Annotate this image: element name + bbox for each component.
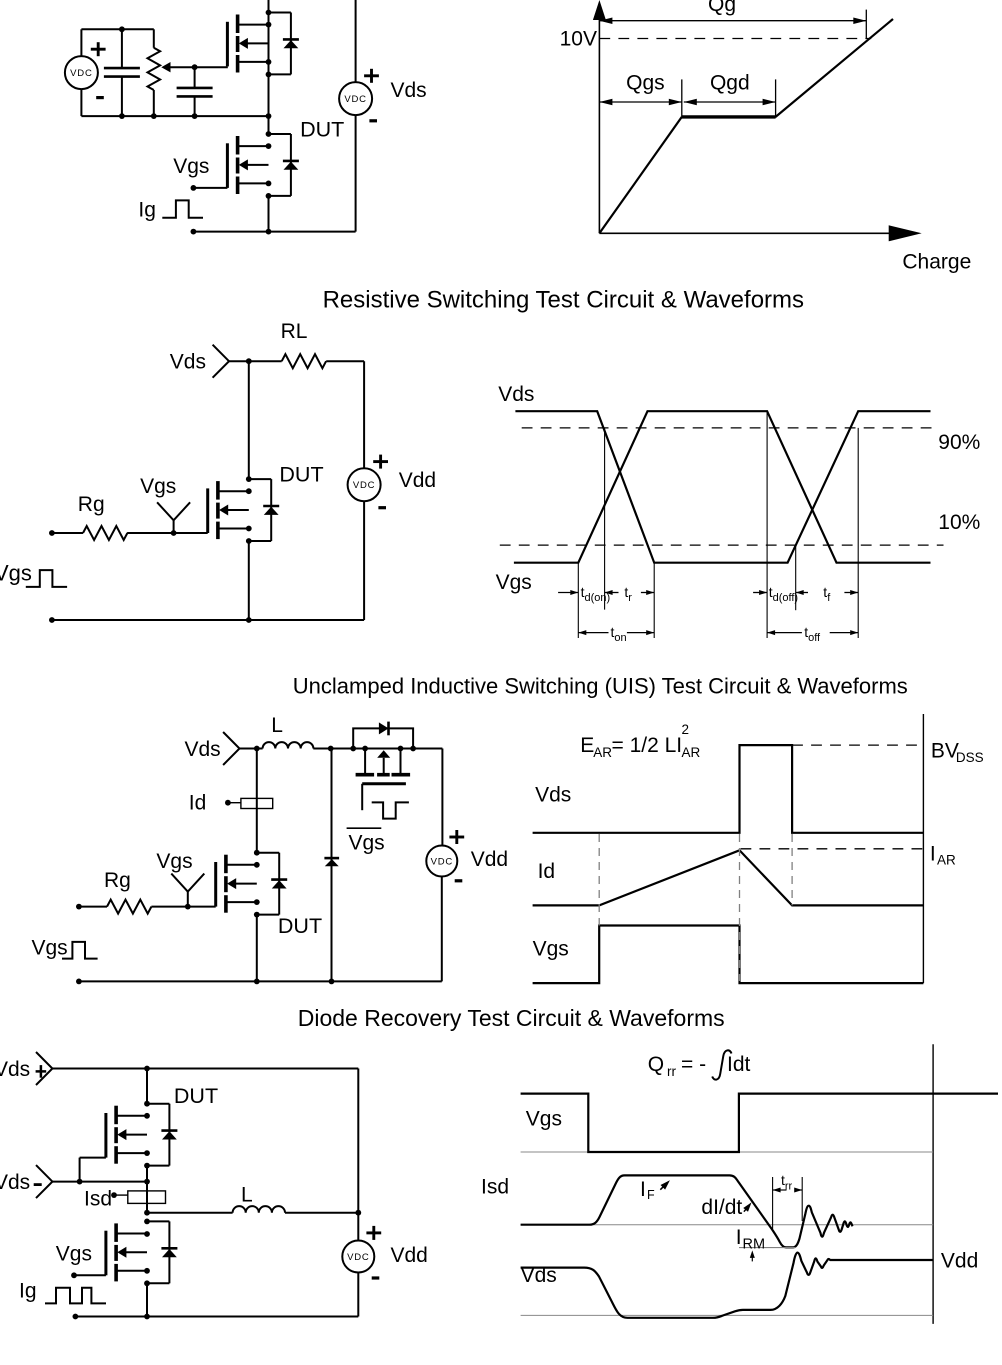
tick F (Vds 90% rise)	[857, 428, 859, 638]
label + (VDC plus)	[91, 48, 106, 51]
junction DUT source tap	[254, 899, 260, 905]
svg-text:Vdd: Vdd	[391, 1244, 428, 1267]
svg-text:Vdd: Vdd	[941, 1250, 978, 1273]
clamp MOSFET Q2 (sideways)	[364, 749, 366, 774]
svg-text:RL: RL	[281, 320, 308, 343]
svg-text:Rg: Rg	[104, 869, 131, 892]
junction L / clamp diode branch	[328, 746, 334, 752]
junction DUT drain tap	[254, 862, 260, 868]
svg-text:Vds: Vds	[0, 1058, 30, 1081]
Ig gate pulse symbol	[162, 200, 203, 217]
junction lower source tap	[144, 1268, 150, 1274]
junction bottom / lower rail	[144, 1314, 150, 1320]
ton right arrow	[627, 632, 654, 634]
rail: DUT source to bottom	[268, 196, 270, 232]
BVdss dashed level	[792, 744, 921, 746]
90% dashed line	[522, 427, 933, 429]
junction pot bottom	[151, 113, 157, 119]
rail: Vds node down to Id sensor	[256, 749, 258, 853]
junction gate / Vgs probe	[185, 904, 191, 910]
junction DUT drain branch	[144, 1101, 150, 1107]
DUT MOSFET (gate charge)	[269, 133, 291, 135]
tick A (Vgs rise start)	[577, 563, 579, 638]
junction DUT source branch	[254, 912, 260, 918]
trr left tick	[772, 1177, 774, 1231]
bottom wire of left loop	[81, 115, 268, 117]
svg-text:DUT: DUT	[174, 1084, 218, 1108]
Vdd rail upper	[357, 1069, 359, 1241]
Vgs recovery trace	[521, 1094, 998, 1152]
Vgs probe chevron	[171, 874, 204, 892]
wire L to diode node	[313, 748, 353, 750]
junction DUT source tap	[246, 526, 252, 532]
tick E (Vds 10% rise)	[795, 545, 797, 610]
junction top wire / DUT rail	[246, 358, 252, 364]
DUT MOSFET (UIS)	[257, 852, 279, 854]
Qgd tick	[775, 79, 777, 117]
svg-text:Isd: Isd	[481, 1175, 509, 1198]
junction Q1 source branch	[266, 72, 272, 78]
svg-text:Charge: Charge	[902, 251, 971, 274]
inductor L	[263, 742, 314, 748]
wire top to Vdd rail corner	[441, 749, 443, 846]
clamp FET stub 2 junction	[398, 746, 404, 752]
UIS waveform boundary line	[922, 714, 924, 983]
junction gate elbow	[77, 1179, 83, 1185]
tr right arrow	[641, 592, 654, 594]
svg-text:Idt: Idt	[727, 1053, 751, 1076]
DUT rail upper	[248, 361, 250, 479]
wire to inductor	[147, 1212, 233, 1214]
svg-text:2: 2	[682, 722, 690, 737]
junction wiper-C2	[192, 64, 198, 70]
Vdd rail upper	[363, 361, 365, 468]
wire inductor to Vdd rail	[285, 1212, 358, 1214]
junction DUT source tap	[266, 181, 272, 187]
svg-text:AR: AR	[593, 745, 612, 760]
Vds low gray line	[521, 1314, 934, 1316]
dI/dt pointer arrow	[744, 1206, 748, 1211]
junction lower source branch	[144, 1280, 150, 1286]
Vds source rail (top)	[355, 0, 357, 82]
bottom wire left node	[49, 617, 55, 623]
label - (probe)	[34, 1183, 42, 1186]
Qg right tick	[865, 10, 867, 39]
svg-text:Vds: Vds	[0, 1171, 30, 1194]
junction DUT source branch	[266, 193, 272, 199]
tick D (Vgs fall start)	[766, 411, 768, 638]
tick C (Vds low)	[653, 563, 655, 638]
junction lower drain branch	[144, 1219, 150, 1225]
svg-text:Vgs: Vgs	[349, 831, 385, 854]
dashed marker t1	[739, 834, 741, 981]
label - (Vdd minus)	[455, 879, 463, 882]
label - (VDC minus)	[96, 96, 104, 99]
potentiometer R1 top lead	[153, 29, 155, 48]
junction DUT drain tap	[144, 1113, 150, 1119]
svg-text:Qg: Qg	[708, 0, 736, 16]
Vgs probe chevron	[157, 502, 190, 520]
label - (Vds minus)	[369, 119, 377, 122]
10V dashed level	[599, 38, 871, 40]
top wire across clamp FET	[353, 748, 442, 750]
svg-text:Vgs: Vgs	[0, 561, 32, 586]
svg-text:Id: Id	[189, 792, 207, 815]
Qgs tick	[681, 79, 683, 117]
Vds- probe chevron	[36, 1165, 52, 1198]
Qg dimension arrow	[599, 20, 866, 22]
wire: VDC- down to bottom wire	[80, 89, 82, 116]
Vdd rail lower	[441, 877, 443, 982]
Vdd rail lower	[363, 501, 365, 620]
DC source VDC (gate supply)	[65, 56, 98, 89]
svg-text:Ig: Ig	[19, 1280, 37, 1303]
svg-text:Vgs: Vgs	[533, 938, 569, 961]
junction DUT drain branch	[254, 850, 260, 856]
DC source Vdd (VDC)	[342, 1241, 374, 1273]
dashed marker t2	[791, 834, 793, 905]
junction bottom / DUT rail	[254, 979, 260, 985]
junction top / DUT rail	[144, 1066, 150, 1072]
svg-text:DUT: DUT	[300, 117, 344, 141]
junction C1 bottom	[119, 113, 125, 119]
svg-text:E: E	[580, 734, 594, 757]
wire probe to rail	[52, 1181, 147, 1183]
trr right tick	[801, 1177, 803, 1221]
trr span arrow	[773, 1189, 787, 1191]
middle diode symbol	[325, 859, 339, 866]
Vds UIS trace	[533, 745, 924, 833]
Vgs drive pulse symbol	[62, 942, 98, 959]
Vds source rail (bottom)	[355, 115, 357, 232]
middle clamp diode branch	[331, 749, 333, 982]
junction DUT source tap	[144, 1150, 150, 1156]
svg-text:Vds: Vds	[498, 383, 534, 406]
toff right arrow	[830, 632, 859, 634]
junction C2 bottom	[192, 113, 198, 119]
resistor Rg	[107, 900, 151, 914]
label + (probe)	[36, 1070, 47, 1073]
junction gate / Vgs probe	[171, 530, 177, 536]
inductor L	[233, 1206, 285, 1213]
bottom wire left node	[76, 979, 82, 985]
svg-text:AR: AR	[937, 853, 956, 868]
svg-text:RM: RM	[743, 1237, 766, 1253]
svg-text:Vgs: Vgs	[156, 850, 192, 873]
svg-text:Vdd: Vdd	[471, 848, 508, 871]
svg-text:Vds: Vds	[170, 351, 206, 374]
rail to Isd sensor	[146, 1166, 148, 1213]
capacitor C1	[104, 67, 140, 70]
Rg input node	[49, 530, 55, 536]
svg-text:= -: = -	[681, 1053, 706, 1076]
DUT rail upper	[146, 1069, 148, 1104]
svg-text:Ig: Ig	[138, 199, 156, 222]
label - (Vdd minus)	[372, 1276, 380, 1279]
resistor RL	[282, 354, 326, 368]
DUT MOSFET (diode recovery)	[147, 1103, 169, 1105]
svg-text:Vdd: Vdd	[399, 469, 436, 492]
junction Vds node	[254, 746, 260, 752]
svg-text:Vds: Vds	[185, 738, 221, 761]
Vds probe chevron	[213, 345, 229, 378]
td(off) lead arrow	[753, 592, 767, 594]
Isd current sense box	[128, 1191, 166, 1204]
Qgd dimension arrow	[684, 101, 776, 103]
diode recovery boundary line	[932, 1044, 934, 1324]
wire RL to Vdd rail	[326, 360, 364, 362]
Ig double pulse symbol	[45, 1288, 106, 1304]
capacitor C2 top lead	[194, 67, 196, 88]
junction clamp source node	[350, 746, 356, 752]
top wire to RL	[229, 360, 282, 362]
svg-text:10V: 10V	[560, 28, 597, 51]
Vgs low gray line	[521, 1151, 934, 1153]
junction Q1 drain tap	[266, 22, 272, 28]
svg-text:VDC: VDC	[431, 857, 453, 868]
junction lower drain tap	[144, 1231, 150, 1237]
gate node dot	[71, 1272, 77, 1278]
Vdd rail lower	[357, 1273, 359, 1317]
resistor Rg lead-in	[52, 532, 83, 534]
junction Vds- / rail	[144, 1179, 150, 1185]
Vds recovery trace	[521, 1253, 934, 1318]
junction DUT drain branch	[246, 476, 252, 482]
svg-text:10%: 10%	[938, 511, 980, 534]
Id sense node dot	[225, 800, 231, 806]
potentiometer R1 bottom lead	[153, 90, 155, 116]
svg-text:Vgs: Vgs	[140, 475, 176, 498]
clamp FET drain junction	[410, 746, 416, 752]
drain rail (top)	[268, 0, 270, 134]
Vgs UIS trace	[533, 926, 924, 984]
svg-text:I: I	[640, 1178, 646, 1201]
svg-text:DSS: DSS	[956, 750, 984, 765]
td(on) lead arrow	[558, 592, 578, 594]
label + (Vds plus)	[364, 74, 379, 77]
Vgs waveform trace	[514, 411, 931, 563]
clamp FET stub 1 junction	[362, 746, 368, 752]
chart Y axis	[598, 6, 600, 233]
capacitor C1 bottom lead	[121, 77, 123, 117]
label + (Vdd plus)	[373, 460, 388, 463]
tf right arrow	[844, 592, 858, 594]
resistor Rg lead-in	[79, 906, 107, 908]
svg-text:Vgs: Vgs	[496, 571, 532, 594]
Isd sense node dot	[111, 1192, 117, 1198]
junction DUT drain branch	[266, 131, 272, 137]
upper MOSFET Q1	[269, 12, 291, 14]
DC source Vdd (VDC)	[426, 846, 457, 877]
junction L / Vdd rail	[355, 1210, 361, 1216]
junction bottom / DUT rail	[246, 617, 252, 623]
svg-text:I: I	[930, 842, 936, 865]
top wire	[52, 1068, 358, 1070]
junction DUT source branch	[246, 538, 252, 544]
gate node dot	[191, 185, 197, 191]
svg-text:DUT: DUT	[279, 462, 323, 486]
svg-text:BV: BV	[931, 740, 959, 763]
svg-text:VDC: VDC	[344, 94, 366, 105]
svg-text:Vgs: Vgs	[173, 155, 209, 178]
svg-text:I: I	[736, 1226, 742, 1249]
bottom return wire	[52, 619, 364, 621]
svg-text:Vgs: Vgs	[56, 1242, 92, 1265]
Qgs dimension arrow	[599, 101, 681, 103]
10% dashed line	[500, 544, 944, 546]
svg-text:Rg: Rg	[78, 493, 105, 516]
label Vgs-bar overline	[347, 827, 382, 829]
svg-text:F: F	[647, 1188, 655, 1202]
Vds probe chevron	[223, 732, 239, 765]
clamp diode symbol	[379, 722, 389, 734]
DUT MOSFET (resistive switching)	[249, 478, 271, 480]
svg-text:Qgd: Qgd	[710, 72, 750, 95]
junction Q1 drain branch	[266, 10, 272, 16]
gate charge test circuit: left loop top wire	[81, 28, 153, 30]
Vgs drive pulse symbol	[26, 570, 67, 587]
bottom return wire	[79, 980, 442, 982]
junction C1 top	[119, 26, 125, 32]
potentiometer R1	[148, 48, 161, 90]
Isd sense lead	[114, 1194, 128, 1196]
DC source Vdd (VDC)	[348, 468, 381, 501]
svg-text:VDC: VDC	[353, 480, 375, 491]
svg-text:rr: rr	[667, 1064, 676, 1079]
Rg input node	[76, 904, 82, 910]
svg-text:AR: AR	[682, 745, 701, 760]
tr left arrow	[605, 592, 619, 594]
IAR dashed level	[741, 848, 924, 850]
wire Rg to gate	[151, 906, 187, 908]
svg-text:Resistive Switching Test Circu: Resistive Switching Test Circuit & Wavef…	[323, 286, 804, 313]
tf left arrow	[796, 592, 808, 594]
label - (Vdd minus)	[378, 506, 386, 509]
svg-text:VDC: VDC	[347, 1252, 369, 1263]
wire probe to L	[240, 748, 263, 750]
svg-text:Q: Q	[648, 1053, 664, 1076]
dashed marker t0	[598, 834, 600, 926]
svg-text:Id: Id	[538, 860, 556, 883]
lower rail to bottom	[146, 1283, 148, 1316]
bottom wire left node	[191, 229, 197, 235]
svg-text:VDC: VDC	[70, 68, 92, 79]
bottom return wire	[75, 1316, 358, 1318]
svg-text:Qgs: Qgs	[626, 72, 665, 95]
Vds+ probe chevron	[36, 1052, 52, 1085]
junction DUT source branch	[144, 1163, 150, 1169]
svg-text:L: L	[271, 714, 283, 737]
svg-text:DUT: DUT	[278, 914, 322, 938]
wire: VDC+ to top rail	[80, 29, 82, 56]
Id current sense box	[241, 798, 273, 808]
clamp diode loop	[353, 728, 413, 748]
label + (Vdd plus)	[366, 1231, 381, 1234]
IF pointer arrow	[660, 1185, 665, 1190]
svg-text:Diode Recovery Test Circuit &: Diode Recovery Test Circuit & Waveforms	[298, 1005, 725, 1031]
svg-text:Isd: Isd	[84, 1187, 112, 1210]
junction bottom / diode branch	[329, 979, 335, 985]
IRM pointer arrow	[751, 1257, 753, 1262]
junction inductor node	[144, 1210, 150, 1216]
IRM level line	[739, 1247, 795, 1249]
gate lead elbow	[80, 1157, 106, 1159]
Vds waveform trace	[515, 411, 930, 563]
capacitor C1 top lead	[121, 29, 123, 68]
toff left arrow	[767, 632, 802, 634]
capacitor C2	[177, 87, 213, 90]
ton left arrow	[578, 632, 608, 634]
potentiometer wiper arrow	[161, 62, 170, 72]
capacitor C2 bottom lead	[194, 96, 196, 116]
junction DUT drain tap	[246, 488, 252, 494]
svg-text:L: L	[241, 1183, 253, 1206]
chart X axis	[599, 232, 895, 234]
Isd recovery trace	[521, 1175, 853, 1247]
wire Rg to gate	[127, 532, 174, 534]
junction bottom/drain rail	[266, 229, 272, 235]
resistor Rg	[83, 526, 127, 540]
svg-text:90%: 90%	[938, 431, 980, 454]
inverted gate pulse symbol	[372, 802, 409, 818]
svg-text:Vds: Vds	[391, 79, 427, 102]
junction DUT drain tap	[266, 143, 272, 149]
Isd zero gray line	[521, 1224, 934, 1226]
DC source Vds (VDC)	[339, 82, 372, 115]
svg-text:dI/dt: dI/dt	[701, 1196, 742, 1219]
svg-text:Vds: Vds	[535, 784, 571, 807]
Id sense lead	[228, 802, 241, 804]
bottom return wire	[193, 231, 355, 233]
svg-text:= 1/2 LI: = 1/2 LI	[612, 734, 683, 757]
DUT rail lower	[256, 915, 258, 982]
tick B (Vds 90% fall)	[604, 428, 606, 610]
lower MOSFET (driver)	[147, 1220, 169, 1222]
bottom wire left node	[73, 1314, 79, 1320]
label + (Vdd plus)	[449, 836, 464, 839]
svg-text:Vgs: Vgs	[32, 937, 68, 960]
gate charge curve	[599, 117, 681, 233]
junction left-loop / drain rail	[266, 113, 272, 119]
Id UIS trace	[533, 850, 924, 905]
svg-text:Vgs: Vgs	[526, 1108, 562, 1131]
junction Q1 source tap	[266, 59, 272, 65]
DUT rail lower	[248, 541, 250, 620]
svg-text:Unclamped Inductive Switching: Unclamped Inductive Switching (UIS) Test…	[293, 674, 908, 699]
